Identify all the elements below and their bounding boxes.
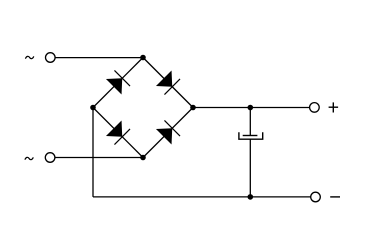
- diode D1 triangle and cathode bar: [106, 70, 130, 94]
- wire bottom rail: [93, 196, 311, 198]
- wire AC2 to bridge bottom: [55, 157, 143, 159]
- wire capacitor bottom lead: [249, 139, 251, 197]
- minus sign: [330, 196, 340, 198]
- diode D3 triangle and cathode bar: [106, 120, 130, 144]
- junction node capacitor top: [248, 105, 254, 111]
- diode D1 wire (left-top side): [93, 58, 143, 108]
- wire AC1 to bridge top: [55, 57, 143, 59]
- capacitor C1 positive plate: [243, 135, 258, 137]
- terminal AC1: [46, 53, 56, 63]
- wire capacitor top lead: [249, 108, 251, 136]
- plus sign: [329, 102, 339, 112]
- terminal plus: [310, 103, 320, 113]
- diode D4 wire (bottom-right side): [143, 108, 193, 158]
- diode D4 triangle and cathode bar: [156, 120, 180, 144]
- wire bridge left to bottom rail: [92, 108, 94, 197]
- junction node bridge top: [140, 55, 146, 61]
- junction node bridge bottom: [140, 155, 146, 161]
- diode D2 triangle and cathode bar: [156, 70, 180, 94]
- wire bridge right to plus terminal: [193, 107, 310, 109]
- AC source tilde 2: [25, 157, 33, 159]
- diode D2 wire (top-right side): [143, 58, 193, 108]
- capacitor C1 negative cup plate: [239, 132, 263, 139]
- terminal minus: [311, 192, 321, 202]
- junction node capacitor bottom: [248, 194, 254, 200]
- junction node bridge left: [90, 105, 96, 111]
- diode D3 wire (left-bottom side): [93, 108, 143, 158]
- AC source tilde 1: [25, 56, 33, 58]
- junction node bridge right: [190, 105, 196, 111]
- terminal AC2: [45, 153, 55, 163]
